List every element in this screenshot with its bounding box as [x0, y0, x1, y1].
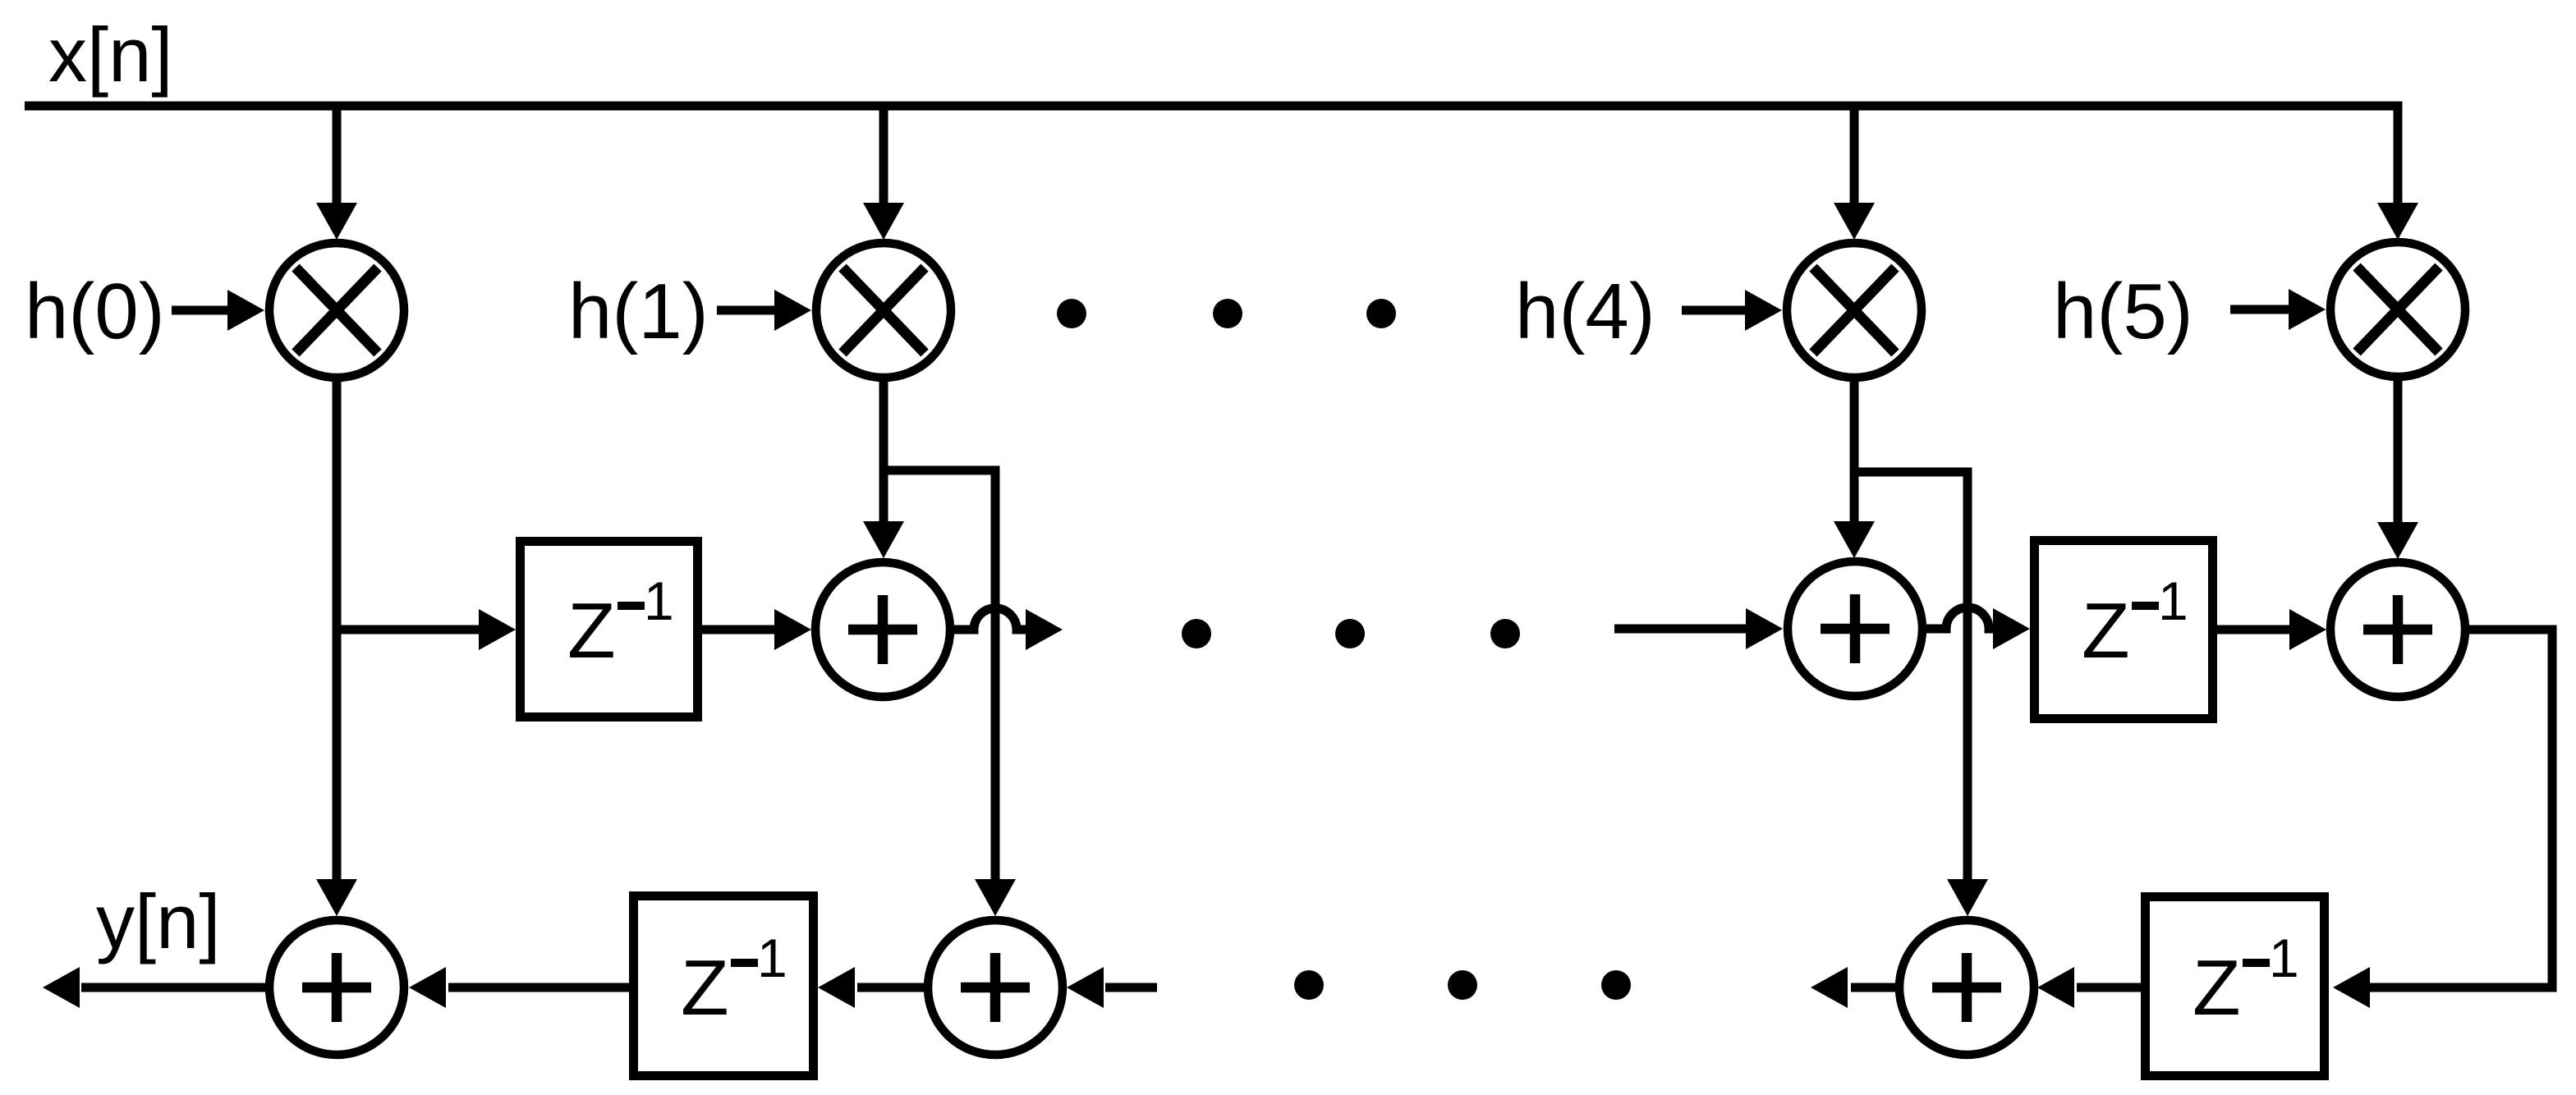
svg-text:y[n]: y[n]	[96, 878, 221, 964]
wire drop to multiplier M2	[879, 106, 889, 204]
wire M4 down to adder A3	[2394, 377, 2403, 523]
arrow h(1) into M2	[717, 306, 776, 315]
svg-text:h(1): h(1)	[568, 268, 709, 355]
arrow into delay D1	[479, 609, 516, 650]
arrow into adder A3 top	[2377, 522, 2418, 559]
arrow into adder A6	[1067, 967, 1104, 1008]
arrow into delay D3 right side	[2333, 967, 2370, 1008]
label D1 Z^-1	[567, 570, 674, 675]
arrow into adder A5 top	[316, 879, 357, 916]
svg-text:x[n]: x[n]	[48, 11, 173, 98]
adder A7	[1899, 920, 2034, 1055]
label D4 Z^-1	[681, 928, 787, 1032]
svg-text:Z: Z	[567, 587, 616, 675]
wire M2 down to adder A1	[879, 378, 889, 523]
wire M2 jog right and down to adder A6	[884, 470, 995, 881]
arrow into adder A2 top	[1834, 521, 1875, 558]
arrow into delay D2	[1993, 608, 2030, 649]
wire drop to multiplier M3	[1850, 106, 1859, 204]
wire A6 to delay D4	[857, 983, 928, 992]
arrow h(5) into M4	[2230, 305, 2291, 314]
arrow into adder A7 right	[2037, 967, 2074, 1008]
arrow into adder A6 top	[975, 879, 1016, 916]
arrow into M2 top	[863, 203, 904, 240]
arrow into adder A1 top	[863, 521, 904, 558]
adder A1	[815, 562, 950, 697]
wire input bus top line	[25, 106, 2398, 204]
middle ellipsis dots row	[1182, 619, 1520, 648]
wire M3 down to adder A2	[1850, 377, 1859, 523]
wire A7 output left	[1851, 983, 1899, 992]
svg-text:h(0): h(0)	[25, 268, 165, 355]
adder A5 output	[269, 920, 404, 1055]
svg-text:1: 1	[644, 570, 674, 631]
wire M1 output down column 0	[333, 378, 342, 881]
label D2 Z^-1	[2082, 570, 2188, 675]
arrow into adder A5 right	[409, 967, 446, 1008]
wire A1 output with hop over column	[950, 608, 1027, 630]
multiplier M3 h(4)	[1787, 243, 1922, 378]
bottom ellipsis dots row	[1294, 970, 1631, 1000]
multiplier M4 h(5)	[2330, 242, 2465, 377]
wire into adder A6 from right	[1105, 983, 1157, 992]
delay block D2	[2035, 541, 2213, 719]
arrow h(0) into M1	[172, 306, 229, 315]
svg-text:Z: Z	[2193, 944, 2241, 1032]
arrow into adder A3	[2289, 609, 2326, 650]
adder A3	[2330, 562, 2465, 697]
wire M3 jog right and down to adder A7	[1854, 472, 1968, 881]
adder A2	[1788, 561, 1922, 696]
wire D3 to adder A7	[2077, 983, 2141, 992]
svg-text:Z: Z	[681, 944, 729, 1032]
multiplier M1 h(0)	[269, 243, 404, 378]
wire A2 output with hop over column into delay D2	[1922, 607, 1996, 629]
arrow into adder A2	[1746, 608, 1783, 649]
arrow into adder A1	[774, 609, 811, 650]
wire into adder A2	[1614, 625, 1747, 634]
svg-text:1: 1	[2269, 928, 2299, 988]
svg-text:h(5): h(5)	[2053, 268, 2193, 355]
arrow A1 output end	[1026, 609, 1063, 650]
arrow h(4) into M3	[1682, 306, 1747, 315]
delay block D3	[2146, 897, 2325, 1076]
wire A3 output right and down to bottom row	[2368, 630, 2552, 987]
svg-text:h(4): h(4)	[1515, 268, 1655, 355]
svg-text:Z: Z	[2082, 587, 2130, 675]
wire drop to multiplier M1	[333, 106, 342, 204]
wire A5 output left y[n]	[81, 983, 269, 992]
delay block D1	[521, 542, 698, 717]
arrow into delay D4 right side	[818, 967, 855, 1008]
arrow A7 output end	[1811, 967, 1848, 1008]
arrow into adder A7 top	[1947, 879, 1988, 916]
wire D1 to adder A1	[702, 625, 776, 635]
top ellipsis dots row	[1057, 299, 1396, 328]
adder A6	[928, 920, 1063, 1055]
arrow output y[n] end	[43, 967, 80, 1008]
arrow into M4 top	[2377, 203, 2418, 240]
arrow into M1 top	[316, 203, 357, 240]
wire branch junction to delay D1	[337, 625, 480, 635]
label D3 Z^-1	[2193, 928, 2299, 1032]
wire D2 to adder A3	[2212, 625, 2291, 635]
multiplier M2 h(1)	[816, 243, 951, 378]
svg-text:1: 1	[757, 928, 787, 988]
svg-text:1: 1	[2158, 570, 2188, 631]
arrow into M3 top	[1834, 203, 1875, 240]
delay block D4	[634, 896, 814, 1076]
wire D4 to adder A5	[448, 983, 629, 992]
